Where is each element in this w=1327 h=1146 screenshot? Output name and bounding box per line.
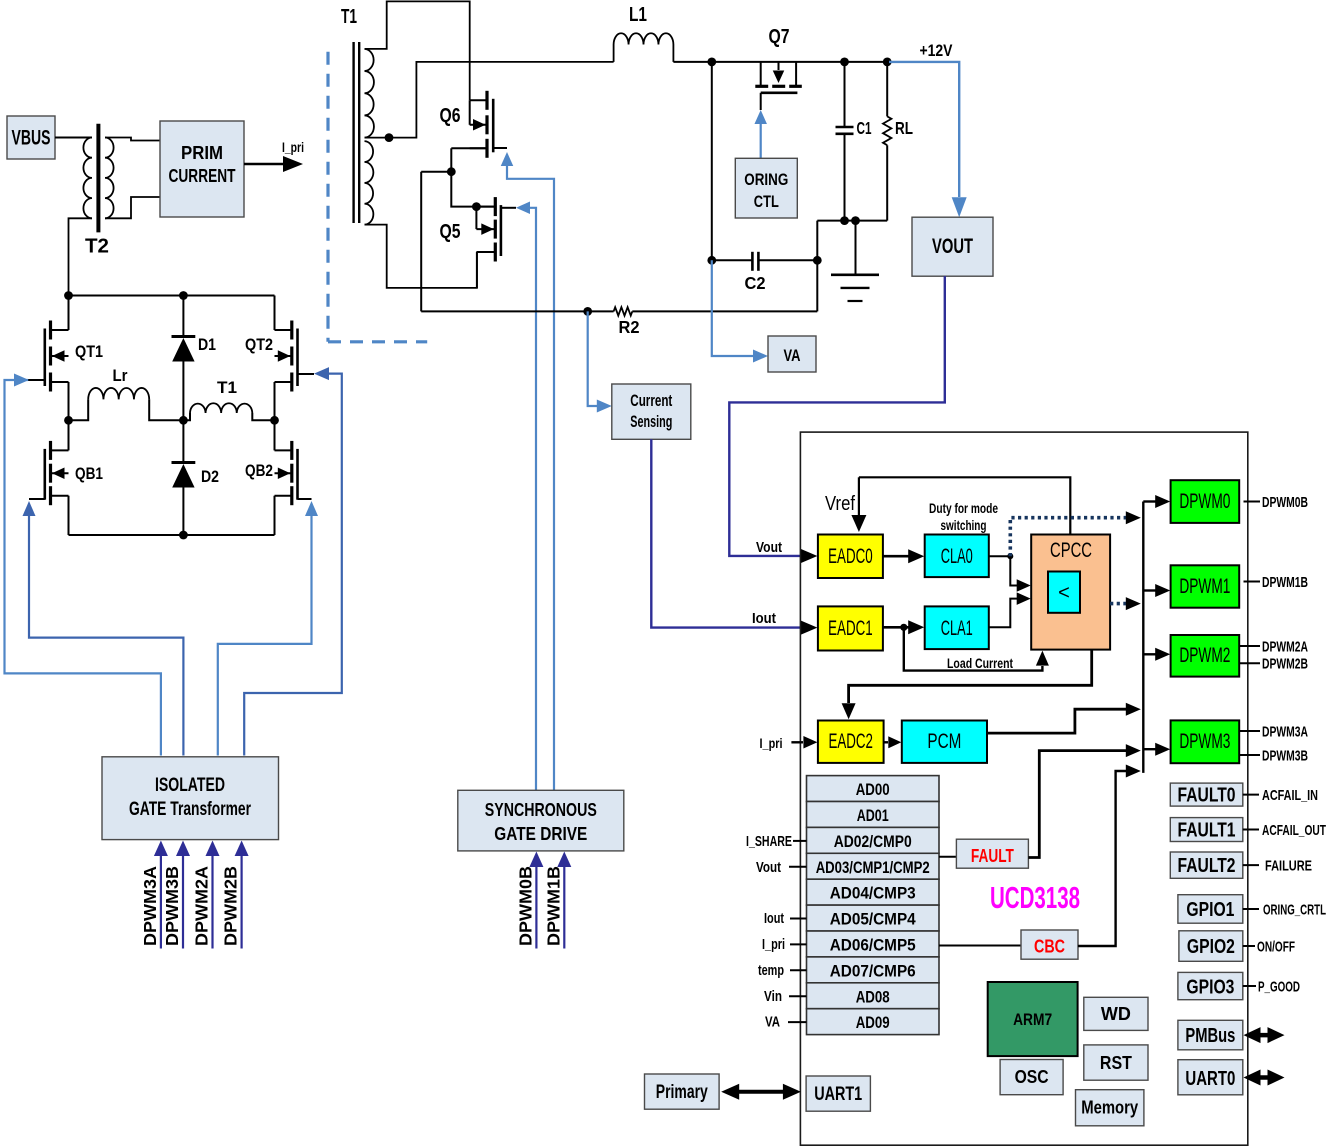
signal arrow EADC0 to CLA0 bbox=[883, 555, 909, 558]
svg-text:DPWM0B: DPWM0B bbox=[1262, 494, 1308, 511]
svg-text:CURRENT: CURRENT bbox=[169, 165, 237, 186]
wire top rail of bridge bbox=[69, 295, 275, 297]
node gnd rail b bbox=[851, 216, 860, 225]
block VOUT bbox=[912, 217, 993, 276]
wire Current Sensing to EADC1 (navy) bbox=[651, 439, 801, 627]
block Memory bbox=[1076, 1090, 1144, 1126]
svg-text:EADC2: EADC2 bbox=[828, 730, 873, 753]
diode D1 bbox=[182, 296, 184, 338]
svg-text:AD02/CMP0: AD02/CMP0 bbox=[834, 832, 912, 851]
node Q6 source junction bbox=[447, 167, 456, 176]
svg-text:L1: L1 bbox=[629, 4, 647, 26]
wire rail down left of Q7 bbox=[711, 62, 713, 260]
wire T1 top to Q6 drain bbox=[365, 1, 470, 100]
block DPWM3 bbox=[1171, 720, 1240, 763]
wire CLA1 to CPCC bbox=[989, 599, 1017, 628]
svg-text:DPWM1B: DPWM1B bbox=[1262, 574, 1308, 591]
signal arrow DPWM1B into gate drive bbox=[563, 866, 565, 949]
node load-current tap bbox=[900, 624, 907, 631]
bidirectional arrow UART0 bbox=[1255, 1075, 1273, 1080]
block PCM bbox=[902, 721, 987, 763]
svg-text:EADC0: EADC0 bbox=[828, 545, 873, 568]
node rail left bbox=[707, 58, 716, 67]
wire VOUT to EADC0 (navy) bbox=[729, 276, 945, 556]
svg-text:PMBus: PMBus bbox=[1185, 1025, 1235, 1047]
node Q5 drain junction bbox=[472, 202, 481, 211]
wire QT2 gate drive (blue) bbox=[314, 367, 329, 380]
block PRIM CURRENT bbox=[160, 121, 244, 217]
svg-text:QT1: QT1 bbox=[75, 342, 103, 361]
transistor Q5 bbox=[494, 197, 497, 216]
svg-text:temp: temp bbox=[758, 962, 784, 979]
dotted wire CLA0 junction to DPWM bus bbox=[1010, 518, 1126, 557]
svg-text:GPIO1: GPIO1 bbox=[1186, 899, 1234, 921]
svg-text:DPWM3A: DPWM3A bbox=[1262, 724, 1308, 741]
node mid-left bbox=[64, 416, 73, 425]
capacitor C2 bbox=[712, 259, 753, 261]
svg-text:PRIM: PRIM bbox=[181, 142, 223, 163]
svg-text:Duty for mode: Duty for mode bbox=[929, 501, 998, 516]
svg-text:D1: D1 bbox=[198, 335, 216, 354]
svg-text:<: < bbox=[1058, 582, 1070, 604]
svg-text:PCM: PCM bbox=[927, 730, 961, 753]
wire output bottom rail bbox=[817, 220, 887, 222]
svg-text:FAULT: FAULT bbox=[971, 846, 1014, 866]
block EADC2 bbox=[818, 721, 884, 763]
transformer T2 core bbox=[96, 124, 100, 233]
bidirectional arrow Primary-UART1 bbox=[736, 1090, 786, 1094]
svg-text:ACFAIL_IN: ACFAIL_IN bbox=[1262, 787, 1318, 804]
svg-text:Vin: Vin bbox=[764, 988, 782, 1005]
svg-text:CPCC: CPCC bbox=[1050, 539, 1092, 562]
block CBC bbox=[939, 945, 1021, 947]
signal arrow bus to DPWM2 bbox=[1143, 653, 1156, 655]
block VA bbox=[768, 336, 816, 372]
svg-text:ARM7: ARM7 bbox=[1013, 1010, 1052, 1029]
wire T2 secondary bottom to PRIM CURRENT bbox=[105, 197, 160, 218]
node top-left bbox=[64, 291, 73, 300]
signal P_GOOD bbox=[1243, 985, 1256, 987]
node bottom-center bbox=[179, 531, 188, 540]
svg-text:AD00: AD00 bbox=[856, 780, 890, 799]
svg-text:AD08: AD08 bbox=[856, 987, 890, 1006]
transistor QT1 bbox=[68, 296, 70, 331]
svg-text:VA: VA bbox=[784, 347, 801, 365]
svg-text:VBUS: VBUS bbox=[12, 127, 51, 150]
block UCD3138 outline bbox=[800, 432, 1247, 1145]
svg-text:CLA1: CLA1 bbox=[941, 617, 973, 640]
block GPIO2 bbox=[1179, 931, 1243, 962]
transformer T1 lower secondary winding bbox=[365, 141, 374, 225]
svg-text:Vout: Vout bbox=[756, 859, 781, 876]
svg-text:ON/OFF: ON/OFF bbox=[1257, 939, 1295, 956]
wire PCM to DPWM bus bbox=[987, 709, 1126, 733]
svg-text:DPWM0B: DPWM0B bbox=[515, 866, 535, 946]
transformer T2 secondary winding bbox=[105, 138, 114, 219]
svg-text:SYNCHRONOUS: SYNCHRONOUS bbox=[485, 800, 597, 820]
wire Q5/Q6 leg to R2 rail bbox=[420, 172, 422, 312]
signal arrow EADC1 to CLA1 bbox=[883, 626, 909, 629]
svg-text:EADC1: EADC1 bbox=[828, 617, 873, 640]
signal arrow DPWM2A into gate transformer bbox=[211, 855, 213, 949]
block CPCC bbox=[1031, 535, 1110, 650]
block CLA0 bbox=[925, 535, 989, 578]
transistor Q7 (ORing FET) bbox=[760, 62, 762, 86]
wire bottom rail of bridge bbox=[69, 534, 275, 536]
svg-text:Load Current: Load Current bbox=[947, 655, 1013, 671]
node gnd rail a bbox=[840, 216, 849, 225]
svg-text:VA: VA bbox=[765, 1014, 780, 1031]
svg-text:GPIO3: GPIO3 bbox=[1186, 977, 1234, 999]
block EADC1 bbox=[818, 606, 883, 650]
node VBUS box bbox=[7, 116, 55, 159]
wire T2 primary to bridge node bbox=[69, 218, 93, 295]
isolation boundary (dashed) bbox=[328, 52, 427, 342]
svg-text:CLA0: CLA0 bbox=[941, 545, 973, 568]
transistor Q6 bbox=[485, 91, 488, 110]
svg-text:Sensing: Sensing bbox=[630, 413, 672, 431]
wire to Current Sensing (blue) bbox=[588, 311, 597, 406]
svg-text:FAULT0: FAULT0 bbox=[1178, 785, 1236, 807]
svg-text:R2: R2 bbox=[619, 317, 640, 337]
bidirectional arrow PMBus bbox=[1255, 1033, 1273, 1038]
signal ON/OFF bbox=[1243, 945, 1255, 947]
svg-text:FAULT1: FAULT1 bbox=[1178, 820, 1236, 842]
svg-text:ACFAIL_OUT: ACFAIL_OUT bbox=[1262, 822, 1326, 839]
table ADC channels bbox=[807, 776, 940, 802]
block GPIO3 bbox=[1178, 972, 1243, 999]
inductor T1 primary bbox=[183, 413, 190, 420]
node mid-center bbox=[179, 416, 188, 425]
svg-text:C1: C1 bbox=[857, 118, 872, 138]
svg-text:CBC: CBC bbox=[1034, 937, 1065, 957]
svg-text:T1: T1 bbox=[217, 378, 237, 397]
svg-text:Iout: Iout bbox=[752, 610, 776, 627]
svg-text:DPWM3A: DPWM3A bbox=[140, 866, 160, 946]
svg-text:AD06/CMP5: AD06/CMP5 bbox=[830, 936, 916, 955]
signal arrow I_pri output bbox=[244, 163, 284, 166]
svg-text:AD09: AD09 bbox=[856, 1013, 890, 1032]
svg-text:UCD3138: UCD3138 bbox=[990, 880, 1080, 915]
wire T2 secondary top to PRIM CURRENT bbox=[105, 138, 160, 141]
wire CPCC bottom to EADC2 bbox=[849, 650, 1092, 703]
comparator inside CPCC bbox=[1048, 572, 1080, 613]
svg-text:ISOLATED: ISOLATED bbox=[155, 775, 225, 796]
svg-text:DPWM1B: DPWM1B bbox=[543, 866, 563, 946]
block DPWM2 bbox=[1171, 635, 1240, 677]
svg-text:D2: D2 bbox=[201, 467, 219, 486]
block EADC0 bbox=[818, 535, 883, 579]
wire Q6 source to Q5 drain bbox=[451, 172, 495, 207]
svg-text:switching: switching bbox=[941, 518, 987, 533]
block DPWM1 bbox=[1171, 565, 1240, 607]
svg-text:DPWM0: DPWM0 bbox=[1179, 490, 1230, 513]
svg-text:UART0: UART0 bbox=[1185, 1068, 1235, 1090]
transistor QT2 bbox=[274, 296, 276, 331]
svg-text:Q5: Q5 bbox=[440, 221, 461, 243]
svg-text:C2: C2 bbox=[745, 273, 766, 293]
inductor L1 bbox=[613, 45, 615, 62]
wire to VA (blue) bbox=[712, 260, 753, 356]
wire CLA0 to CPCC bbox=[989, 556, 1017, 585]
resistor R2 bbox=[614, 307, 633, 315]
svg-text:I_pri: I_pri bbox=[282, 140, 304, 155]
dotted wire CPCC output to DPWM bus bbox=[1110, 602, 1126, 606]
svg-text:VOUT: VOUT bbox=[932, 235, 973, 258]
svg-text:Q7: Q7 bbox=[769, 26, 790, 48]
wire FAULT to DPWM bus bbox=[1028, 751, 1126, 858]
svg-text:Memory: Memory bbox=[1081, 1098, 1138, 1118]
node C2 right bbox=[813, 256, 822, 265]
svg-text:Vout: Vout bbox=[756, 539, 782, 556]
block FAULT1 bbox=[1170, 818, 1243, 842]
signal ACFAIL_IN bbox=[1243, 794, 1259, 796]
wire VBUS to T2 bbox=[55, 137, 92, 139]
svg-text:DPWM3: DPWM3 bbox=[1179, 730, 1230, 753]
wire CBC to DPWM bus bbox=[1078, 771, 1126, 946]
wire T1 center tap to L1 bbox=[365, 62, 614, 138]
signal arrow bus to DPWM1 bbox=[1143, 589, 1156, 591]
wire Load Current to CPCC bottom bbox=[904, 627, 1043, 670]
svg-text:RST: RST bbox=[1100, 1053, 1132, 1073]
block DPWM0 bbox=[1171, 480, 1240, 523]
node C2 left bbox=[707, 256, 716, 265]
wire QB1 gate drive (blue) bbox=[23, 501, 36, 516]
svg-text:I_SHARE: I_SHARE bbox=[746, 833, 792, 850]
signal ACFAIL_OUT bbox=[1243, 829, 1259, 831]
signal DPWM3B bbox=[1239, 754, 1260, 756]
svg-text:FAILURE: FAILURE bbox=[1265, 858, 1312, 875]
svg-text:Vref: Vref bbox=[825, 493, 855, 515]
transformer T2 primary winding bbox=[83, 138, 92, 219]
svg-text:DPWM3B: DPWM3B bbox=[162, 866, 182, 946]
svg-text:DPWM2A: DPWM2A bbox=[1262, 639, 1308, 656]
wire C2 right to output rail and R2 rail bbox=[816, 221, 818, 312]
block SYNCHRONOUS GATE DRIVE bbox=[458, 790, 624, 851]
svg-text:FAULT2: FAULT2 bbox=[1178, 855, 1236, 877]
signal arrow DPWM0B into gate drive bbox=[535, 866, 537, 949]
signal DPWM0B bbox=[1244, 501, 1261, 503]
svg-text:UART1: UART1 bbox=[814, 1084, 862, 1105]
svg-text:ORING_CRTL: ORING_CRTL bbox=[1263, 902, 1326, 919]
svg-text:CTL: CTL bbox=[754, 193, 779, 211]
svg-text:DPWM2A: DPWM2A bbox=[192, 866, 212, 946]
block OSC bbox=[1000, 1060, 1063, 1095]
svg-text:OSC: OSC bbox=[1015, 1067, 1049, 1087]
wire L1 to Q7 rail bbox=[673, 61, 889, 63]
svg-text:GATE DRIVE: GATE DRIVE bbox=[494, 824, 587, 844]
signal arrow bus to DPWM3 bbox=[1143, 748, 1156, 750]
inductor Lr bbox=[69, 399, 89, 420]
block UART1 bbox=[806, 1076, 870, 1111]
svg-text:AD05/CMP4: AD05/CMP4 bbox=[830, 910, 916, 929]
signal DPWM3A bbox=[1239, 730, 1260, 732]
svg-text:P_GOOD: P_GOOD bbox=[1258, 979, 1300, 996]
wire QT1 gate drive (blue) bbox=[14, 379, 28, 381]
svg-text:QB2: QB2 bbox=[245, 461, 273, 480]
wire T1 bottom to Q5 source bbox=[365, 225, 477, 288]
diode D2 bbox=[182, 420, 184, 463]
signal FAILURE bbox=[1243, 864, 1259, 866]
svg-text:DPWM3B: DPWM3B bbox=[1262, 748, 1308, 765]
resistor RL bbox=[886, 62, 888, 117]
svg-text:DPWM2: DPWM2 bbox=[1179, 644, 1230, 667]
svg-text:Q6: Q6 bbox=[440, 105, 461, 127]
signal ORING_CRTL bbox=[1243, 908, 1259, 910]
svg-text:GATE Transformer: GATE Transformer bbox=[129, 799, 251, 820]
wire Q5 gate drive (blue) bbox=[516, 202, 530, 215]
svg-text:T1: T1 bbox=[341, 6, 357, 28]
wire QB2 gate drive (blue) bbox=[305, 501, 318, 516]
wire +12V to VOUT (blue) bbox=[889, 62, 959, 197]
wire R2 rail bbox=[421, 310, 817, 312]
block ISOLATED GATE Transformer bbox=[102, 757, 279, 840]
signal DPWM2B bbox=[1239, 662, 1260, 664]
block UART0 bbox=[1178, 1060, 1243, 1095]
svg-text:DPWM2B: DPWM2B bbox=[221, 866, 241, 946]
svg-text:I_pri: I_pri bbox=[760, 736, 783, 751]
svg-text:DPWM2B: DPWM2B bbox=[1262, 656, 1308, 673]
ground bbox=[855, 221, 857, 275]
svg-text:Current: Current bbox=[630, 392, 672, 410]
block ARM7 bbox=[988, 982, 1078, 1056]
node current sense tap bbox=[583, 307, 592, 316]
wire DPWM input bus bbox=[1142, 502, 1144, 773]
svg-text:+12V: +12V bbox=[920, 41, 954, 60]
svg-text:WD: WD bbox=[1101, 1004, 1131, 1024]
node CLA0 output junction bbox=[1007, 553, 1013, 559]
block RST bbox=[1084, 1045, 1148, 1080]
svg-text:AD07/CMP6: AD07/CMP6 bbox=[830, 961, 916, 980]
svg-text:QB1: QB1 bbox=[75, 464, 103, 483]
block GPIO1 bbox=[1178, 895, 1243, 924]
svg-text:Primary: Primary bbox=[656, 1082, 708, 1103]
block FAULT bbox=[939, 856, 956, 858]
node RL top bbox=[883, 58, 892, 67]
block FAULT2 bbox=[1170, 852, 1243, 878]
node center tap bbox=[385, 133, 394, 142]
capacitor C1 bbox=[844, 62, 846, 127]
block Current Sensing bbox=[612, 384, 691, 439]
svg-text:AD03/CMP1/CMP2: AD03/CMP1/CMP2 bbox=[816, 858, 930, 877]
wire ORING CTL to Q7 gate (blue) bbox=[754, 110, 767, 124]
svg-text:QT2: QT2 bbox=[245, 335, 273, 354]
block FAULT0 bbox=[1170, 783, 1243, 806]
svg-text:I_pri: I_pri bbox=[762, 936, 785, 953]
signal arrow DPWM3B into gate transformer bbox=[182, 855, 184, 949]
signal DPWM1B bbox=[1244, 581, 1261, 583]
svg-text:ORING: ORING bbox=[744, 171, 788, 189]
wire Q6 gate drive (blue) bbox=[501, 152, 514, 166]
block Primary bbox=[645, 1074, 720, 1109]
node C1 top bbox=[840, 58, 849, 67]
svg-text:Lr: Lr bbox=[113, 366, 128, 385]
block CLA1 bbox=[925, 606, 989, 649]
node top-center bbox=[179, 291, 188, 300]
wire Vref feedback from CPCC top bbox=[859, 477, 1070, 534]
transformer T1 upper secondary winding bbox=[365, 49, 374, 138]
block PMBus bbox=[1178, 1020, 1243, 1050]
node mid-right bbox=[270, 416, 279, 425]
block ORING CTL bbox=[735, 158, 797, 218]
svg-text:AD04/CMP3: AD04/CMP3 bbox=[830, 884, 916, 903]
block WD bbox=[1084, 997, 1148, 1030]
svg-text:AD01: AD01 bbox=[857, 806, 889, 825]
svg-text:Iout: Iout bbox=[764, 910, 784, 927]
svg-text:DPWM1: DPWM1 bbox=[1179, 575, 1230, 598]
signal DPWM2A bbox=[1239, 645, 1260, 647]
signal arrow DPWM3A into gate transformer bbox=[160, 855, 162, 949]
transistor QB1 bbox=[68, 420, 70, 450]
transformer T1 secondary core bbox=[352, 42, 354, 223]
signal arrow bus to DPWM0 bbox=[1143, 500, 1156, 502]
signal arrow DPWM2B into gate transformer bbox=[241, 855, 243, 949]
transistor QB2 bbox=[274, 420, 276, 450]
svg-text:RL: RL bbox=[895, 118, 913, 138]
svg-text:GPIO2: GPIO2 bbox=[1187, 936, 1235, 958]
signal arrow EADC2 to PCM bbox=[884, 741, 888, 743]
svg-text:T2: T2 bbox=[85, 236, 109, 258]
